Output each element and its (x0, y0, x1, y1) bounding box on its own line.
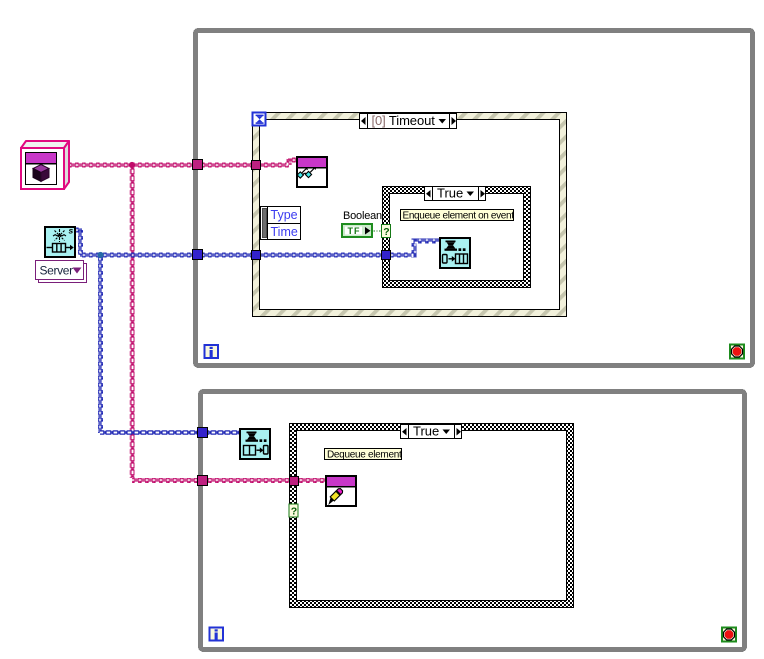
glasses node (register for events style) (297, 157, 327, 187)
loop2 stop button (722, 628, 736, 642)
tunnel pink on case2 (290, 477, 299, 486)
tunnel blue on loop1 (193, 250, 203, 260)
svg-text:s: s (69, 226, 74, 236)
case2 selector "True" (401, 424, 462, 439)
pencil glyph (328, 498, 333, 505)
while loop 2 (bottom) (201, 392, 745, 650)
svg-text:Dequeue element: Dequeue element (327, 449, 402, 460)
wire: pink inside loop2 to case (208, 478, 290, 483)
wire: pink vertical branch down (130, 165, 135, 478)
svg-text:?: ? (291, 505, 297, 517)
svg-text:Time: Time (271, 225, 298, 239)
svg-text:True: True (437, 186, 463, 201)
queue reference constant (3D box) (21, 141, 69, 189)
wire: pink inside event to glasses node (with jog) (260, 158, 296, 168)
loop1 stop button (730, 345, 744, 359)
tunnel pink on event structure (252, 161, 261, 170)
junction pink (129, 162, 135, 168)
tunnel blue on event structure (252, 251, 261, 260)
wire: pink inside loop1 to event structure (203, 163, 252, 168)
event selector "[0] Timeout" (360, 113, 457, 129)
wire: blue inside loop1 to event (203, 253, 252, 258)
label "Enqueue element on event" (401, 210, 515, 222)
Boolean TF terminal (341, 223, 373, 238)
wire: pink horizontal to loop2 (132, 478, 198, 483)
queue to element glyph (244, 446, 269, 456)
wire: blue inside event to case1 (260, 253, 382, 258)
tunnel pink on loop1 (193, 160, 203, 170)
tunnel pink on loop2 (198, 476, 208, 486)
case1 selector "True" (425, 186, 486, 201)
svg-text:Boolean: Boolean (343, 210, 382, 222)
tunnel blue on case1 (382, 251, 391, 260)
Server enum constant (36, 261, 87, 283)
wire: blue vertical branch down (98, 255, 103, 433)
green dotted selector wire (374, 230, 382, 232)
svg-text:Type: Type (271, 208, 298, 222)
dequeue element node (240, 429, 270, 459)
case structure (top, in event) border (383, 187, 531, 288)
wire: blue inside case1 to enqueue node (jog up) (390, 239, 439, 258)
hourglass glyph (445, 241, 466, 252)
loop1 iteration terminal i (205, 345, 219, 358)
glasses glyph (302, 168, 315, 174)
while loop 1 (top) (196, 31, 753, 366)
element into queue glyph (443, 254, 468, 264)
obtain queue VI icon (45, 226, 75, 258)
event structure border (253, 113, 567, 317)
wire: blue inside loop2 to dequeue node (208, 430, 239, 435)
cube glyph (33, 165, 49, 173)
event structure timeout terminal (253, 113, 266, 126)
starburst (53, 229, 66, 242)
svg-text:[0] Timeout: [0] Timeout (372, 113, 436, 128)
wire: blue horizontal to loop2 (100, 430, 198, 435)
case1 selector terminal "?" (382, 225, 391, 238)
wire: blue from obtain-queue hook (76, 228, 83, 256)
svg-text:TF: TF (348, 226, 361, 236)
case2 selector terminal "?" (289, 504, 298, 517)
tunnel blue on loop2 (198, 428, 208, 438)
svg-text:Server: Server (40, 264, 74, 278)
queue out glyph (47, 244, 71, 253)
wire: pink queue ref from constant to loop1 (68, 163, 193, 168)
junction blue (97, 252, 103, 258)
hourglass glyph (246, 432, 267, 443)
svg-text:?: ? (383, 226, 389, 238)
wire: pink inside case2 to pencil node (298, 478, 325, 483)
event data node Type/Time (261, 207, 301, 240)
enqueue element node (440, 238, 470, 268)
wire: blue horizontal to loop1 (80, 253, 193, 258)
case structure (bottom loop) border (290, 424, 574, 608)
svg-text:True: True (413, 424, 439, 439)
loop2 iteration terminal i (210, 628, 224, 641)
pencil node (dequeue handler) (326, 476, 356, 506)
svg-text:Enqueue element on event: Enqueue element on event (403, 210, 515, 221)
label "Dequeue element" (325, 449, 402, 461)
